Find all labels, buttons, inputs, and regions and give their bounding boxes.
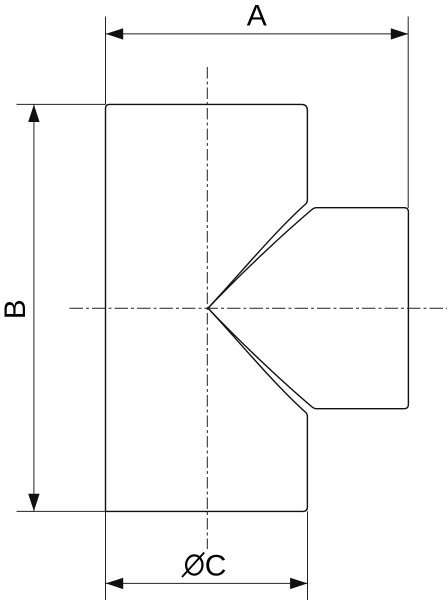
dimension C right arrowhead (290, 578, 307, 589)
dimension B line (33, 105, 35, 512)
svg-text:B: B (0, 299, 32, 319)
dimension A right arrowhead (391, 28, 408, 39)
dimension B top arrowhead (28, 105, 39, 122)
tee body outline (106, 104, 308, 511)
dimension B extension line bottom (17, 510, 106, 512)
branch outlet outline (208, 208, 408, 409)
svg-text:A: A (247, 0, 267, 33)
horizontal centerline (70, 307, 447, 309)
dimension C line (106, 582, 308, 584)
svg-text:C: C (205, 550, 227, 583)
dimension C extension line right (307, 511, 309, 600)
dimension C left arrowhead (106, 578, 123, 589)
dimension A line (106, 33, 408, 35)
dimension B extension line top (17, 103, 106, 105)
vertical centerline (206, 67, 208, 549)
dimension A extension line right (407, 17, 409, 209)
dimension A extension line left (105, 17, 107, 105)
label diameter C : diameter symbol (186, 555, 202, 574)
dimension C extension line left (105, 511, 107, 600)
dimension B bottom arrowhead (28, 494, 39, 511)
dimension A left arrowhead (106, 28, 123, 39)
